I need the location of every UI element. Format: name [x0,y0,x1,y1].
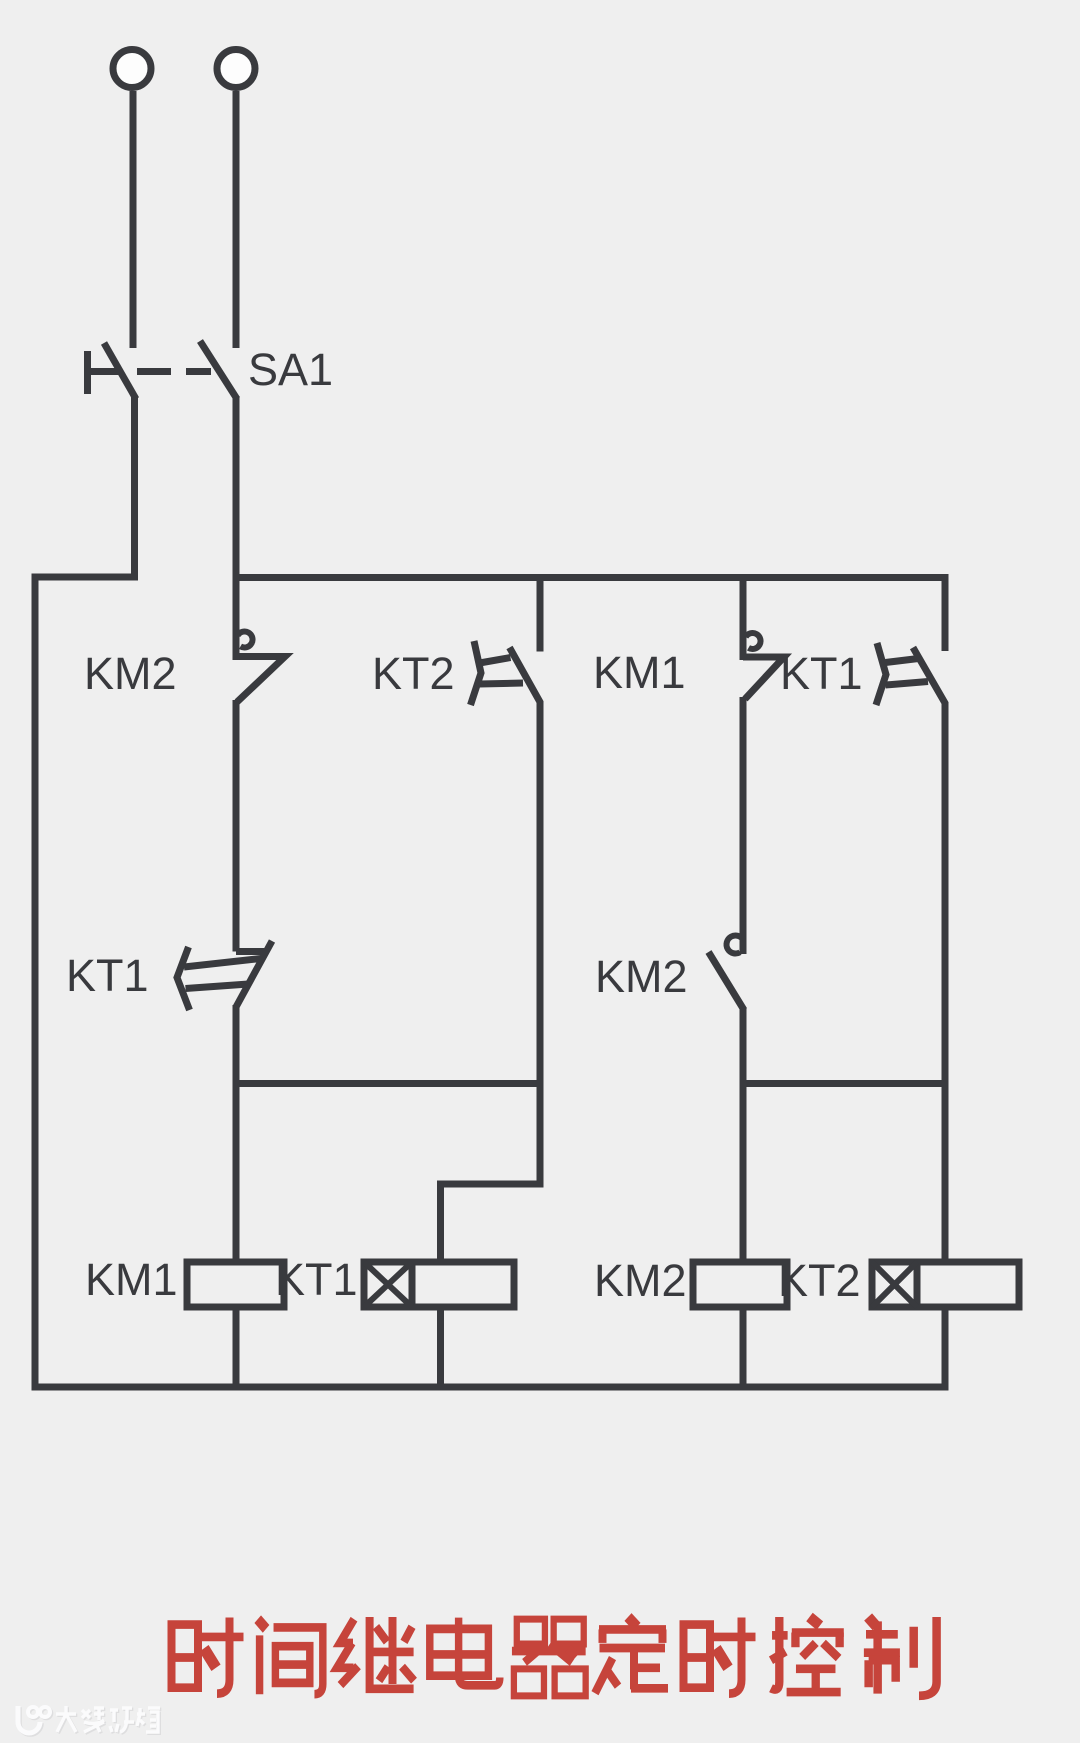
svg-text:KT1: KT1 [275,1254,358,1305]
contact KM2 hook [238,631,253,647]
char 时 [172,1618,244,1694]
bottom bus [32,1384,949,1391]
contact KT1 right chevron [876,643,886,705]
junction left [236,1080,540,1087]
switch SA1 pole2 blade [200,341,237,399]
watermark [18,1706,161,1734]
wire KT2 coil to bottom bus [942,1307,949,1390]
coil KT2 X [872,1262,917,1307]
wire branch2 jog to KT1 coil [441,1084,541,1263]
svg-text:KM2: KM2 [594,1255,687,1306]
coil KT1 divider [409,1262,416,1307]
coil KT1 box [364,1262,514,1307]
contact KT2 upper line [480,658,511,664]
contact KM2 seat and blade [236,657,285,703]
wire branch2 top [537,578,544,652]
svg-text:KM1: KM1 [85,1254,178,1305]
terminal L1 [113,50,151,88]
contact KT1 blade [236,941,272,1007]
switch SA1 pole1 blade [104,343,136,399]
svg-text:KT2: KT2 [778,1255,861,1306]
wire KT1 coil to bottom bus [437,1307,444,1390]
contact KT2 chevron [471,641,482,705]
char 继 [337,1617,414,1689]
svg-text:KT2: KT2 [372,648,455,699]
wire branch1 mid [233,700,240,952]
wire branch3 top [740,578,747,661]
switch SA1 linkage dash [186,368,211,375]
switch SA1 pole1 contact bar [84,351,91,394]
contact KT1 delayed seat [236,948,267,955]
contact KT2 blade and wire down [510,648,541,1084]
char 电 [430,1618,500,1686]
wire L1 down [130,91,137,348]
svg-text:KT1: KT1 [780,648,863,699]
contact KT1 chevron [177,947,190,1010]
char 间 [258,1619,323,1694]
contact KM1 hook [746,633,761,649]
wire branch3 mid [740,697,747,954]
wire branch3 lower [740,1008,747,1262]
switch SA1 linkage dash [137,368,171,375]
svg-text:KM2: KM2 [84,648,177,699]
contact KT1 lower line [186,984,249,989]
svg-text:SA1: SA1 [248,344,333,395]
top bus [236,578,945,652]
wire KM2 coil to bottom bus [740,1307,747,1390]
contact KM2 mid hook [727,936,744,954]
contact KT1 right lower line [886,682,929,686]
wire branch1 lower [233,1005,240,1262]
char 时 [684,1618,756,1694]
coil KT2 box [872,1262,1019,1307]
svg-text:KT1: KT1 [66,950,149,1001]
coil KM2 [693,1262,787,1307]
wire pole2 down to bus [233,396,240,660]
char 制 [864,1617,937,1696]
coil KT2 divider [914,1262,921,1307]
wire KM1 coil to bottom bus [233,1307,240,1390]
switch SA1 pole1 seat [88,368,123,375]
char 控 [771,1617,844,1692]
contact KM2 mid blade [709,952,745,1010]
contact KT1 right blade and wire down [913,648,945,1263]
contact KM1 seat and blade [743,657,784,699]
contact KT2 lower line [480,683,524,684]
wire pole1 to left rail [35,396,135,1391]
coil KM1 [187,1262,284,1307]
wire L2 down [233,91,240,348]
contact KT1 right upper line [886,659,919,663]
char 定 [595,1617,668,1693]
coil KT1 X [364,1262,412,1307]
title 时间继电器定时控制 (hand drawn) [172,1617,937,1696]
junction right [743,1080,945,1087]
char 器 [512,1619,586,1696]
contact KT1 upper line [184,959,261,968]
terminal L2 [217,50,255,88]
svg-text:KM1: KM1 [593,647,686,698]
svg-text:KM2: KM2 [595,951,688,1002]
